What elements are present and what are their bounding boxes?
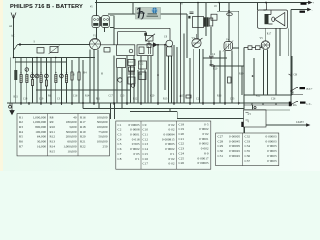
node aerial contact <box>19 44 21 46</box>
svg-text:C5: C5 <box>118 142 122 146</box>
svg-text:R14: R14 <box>50 144 56 148</box>
svg-text:0·0002: 0·0002 <box>130 147 140 151</box>
logo globe icon <box>152 7 158 13</box>
svg-text:R18: R18 <box>80 125 86 129</box>
logo text lines <box>148 13 158 14</box>
node top bus <box>228 10 230 12</box>
svg-text:0·00005: 0·00005 <box>198 161 209 165</box>
trimmer C16b <box>131 84 135 88</box>
svg-text:C26: C26 <box>179 161 185 165</box>
svg-text:0·0002: 0·0002 <box>165 147 175 151</box>
svg-text:C29: C29 <box>218 144 224 148</box>
svg-text:C18: C18 <box>179 122 185 126</box>
resistor R16 <box>228 77 232 83</box>
svg-text:RG: RG <box>293 104 297 107</box>
bus end blob <box>289 102 292 107</box>
svg-text:CH: CH <box>294 74 298 77</box>
svg-text:C24: C24 <box>179 151 185 155</box>
svg-text:C15: C15 <box>143 152 149 156</box>
output transformer T4 frame <box>258 10 288 28</box>
svg-text:0·1: 0·1 <box>170 152 175 156</box>
trimmer C1 <box>25 68 29 72</box>
box det C <box>147 44 151 48</box>
svg-text:R22: R22 <box>80 144 86 148</box>
resistor value table <box>17 114 110 156</box>
resistor R11 <box>139 72 146 80</box>
core T1 <box>99 17 102 26</box>
svg-text:R6: R6 <box>19 140 23 144</box>
svg-text:C30: C30 <box>218 149 224 153</box>
wire ground bus <box>7 102 291 104</box>
loudspeaker LS <box>275 13 285 26</box>
wire light terminal <box>306 124 310 126</box>
svg-text:C9: C9 <box>143 123 147 127</box>
trimmer arrows <box>25 68 63 78</box>
left cream edge strip <box>0 0 3 171</box>
svg-text:0·00003: 0·00003 <box>266 135 277 139</box>
svg-text:C13: C13 <box>120 95 125 98</box>
shade V1 <box>92 39 99 41</box>
capacitor C22 <box>190 12 194 14</box>
coil L1 aerial <box>14 70 17 80</box>
svg-text:0·00003: 0·00003 <box>266 139 277 143</box>
wire v1 anode <box>97 0 115 103</box>
svg-text:C37: C37 <box>245 159 251 163</box>
svg-text:C22: C22 <box>179 142 185 146</box>
svg-text:0·00045: 0·00045 <box>229 149 240 153</box>
svg-text:C20: C20 <box>150 95 155 98</box>
valve V2 body <box>167 47 172 56</box>
svg-text:C3: C3 <box>118 133 122 137</box>
svg-text:R8: R8 <box>50 115 54 119</box>
svg-text:R12: R12 <box>50 135 56 139</box>
coil L4 <box>31 80 33 86</box>
svg-text:L.T.−: L.T.− <box>307 103 313 106</box>
svg-text:0·00045: 0·00045 <box>229 154 240 158</box>
svg-text:0·02: 0·02 <box>168 128 174 132</box>
terminal HT+ label <box>301 3 307 5</box>
wire det line <box>101 44 167 46</box>
svg-text:C26: C26 <box>271 98 276 101</box>
wire v4 verticals <box>220 3 239 104</box>
wire ground stub <box>10 103 12 109</box>
resistor R10 <box>128 77 135 84</box>
trimmer C1b <box>31 74 35 78</box>
svg-text:C21: C21 <box>196 98 201 101</box>
coil L2 <box>20 75 22 83</box>
svg-text:250: 250 <box>103 144 108 148</box>
svg-text:C16: C16 <box>73 95 78 98</box>
core bars T5 <box>204 17 206 26</box>
svg-text:R21: R21 <box>14 96 19 99</box>
svg-text:0·00005: 0·00005 <box>229 135 240 139</box>
svg-text:R5: R5 <box>19 135 23 139</box>
node det junctions <box>157 44 159 46</box>
svg-text:C19: C19 <box>39 98 44 101</box>
node ground bus ticks <box>21 103 276 105</box>
terminal HT+ arrow <box>308 1 312 4</box>
battery tap circle <box>254 107 256 109</box>
svg-text:R16: R16 <box>217 95 222 98</box>
coil hatches <box>20 77 68 81</box>
svg-text:R14: R14 <box>85 95 90 98</box>
svg-text:0·0003: 0·0003 <box>267 149 277 153</box>
logo glyph h <box>137 8 145 19</box>
svg-text:C14: C14 <box>143 147 149 151</box>
electrodes V5 <box>262 42 270 48</box>
diode D1 <box>153 43 157 47</box>
wire c24 row <box>244 47 262 49</box>
LS coil <box>272 17 275 21</box>
battery cell marks <box>246 113 249 121</box>
contact S2 <box>291 90 292 91</box>
svg-text:8·0: 8·0 <box>204 151 209 155</box>
wire output box <box>244 56 292 95</box>
svg-text:C2: C2 <box>118 128 122 132</box>
capacitor C9 trimmer <box>227 13 233 16</box>
electrodes V4 <box>226 44 231 50</box>
svg-text:C28: C28 <box>218 139 224 143</box>
box L9 <box>117 59 126 68</box>
svg-text:C13: C13 <box>117 77 122 80</box>
contact S3 <box>291 104 292 105</box>
svg-text:R19: R19 <box>80 130 86 134</box>
wire heater pair <box>245 109 290 110</box>
wire output verticals <box>242 3 291 134</box>
electrodes V3 <box>193 34 200 43</box>
svg-text:0·0005: 0·0005 <box>165 142 175 146</box>
wire aux contact <box>291 94 303 96</box>
svg-text:C20: C20 <box>179 132 185 136</box>
arrow V4 <box>223 41 233 52</box>
svg-text:0·00017: 0·00017 <box>198 156 209 160</box>
svg-text:0·00005: 0·00005 <box>229 144 240 148</box>
svg-text:R2: R2 <box>19 120 23 124</box>
svg-text:H.T.+: H.T.+ <box>307 88 314 91</box>
capacitor C25 <box>256 46 261 50</box>
coil L8 <box>65 75 67 83</box>
arrow padder <box>146 34 155 45</box>
svg-text:R13: R13 <box>50 140 56 144</box>
wire wafer bar <box>15 61 67 63</box>
trimmer C13 <box>118 78 122 82</box>
valve V5 <box>261 41 270 50</box>
ground E <box>9 105 12 108</box>
ground arrow <box>10 109 14 115</box>
trimmer C3 <box>45 74 49 78</box>
svg-text:R11: R11 <box>50 130 56 134</box>
svg-text:C8: C8 <box>118 157 122 161</box>
IF can T5 <box>193 17 204 28</box>
battery lead blob <box>241 122 243 127</box>
valve V2 <box>166 40 173 47</box>
svg-text:0·0003: 0·0003 <box>267 159 277 163</box>
node bus junctions <box>13 57 15 59</box>
svg-text:C23: C23 <box>230 98 235 101</box>
svg-text:R20: R20 <box>213 68 218 71</box>
valve V3 <box>192 38 201 47</box>
switch S2 HT <box>291 88 298 92</box>
svg-text:AE: AE <box>11 35 15 38</box>
svg-text:C12: C12 <box>139 63 144 66</box>
svg-text:C19: C19 <box>179 127 185 131</box>
svg-text:C10: C10 <box>71 74 76 77</box>
svg-text:C35: C35 <box>245 149 251 153</box>
svg-text:R15: R15 <box>180 95 185 98</box>
IF can T6 <box>211 14 217 20</box>
wire det verticals <box>158 34 184 103</box>
svg-text:0·0002: 0·0002 <box>199 127 209 131</box>
svg-text:40: 40 <box>73 115 77 119</box>
svg-text:LIGHT: LIGHT <box>296 121 304 124</box>
wire if section verticals <box>117 56 151 103</box>
wire aerial bus <box>14 45 90 58</box>
svg-text:0·0001: 0·0001 <box>130 133 140 137</box>
resistor R7 <box>129 67 135 71</box>
svg-text:0·018: 0·018 <box>132 137 140 141</box>
padder blob <box>144 33 147 36</box>
svg-text:0·00045: 0·00045 <box>229 139 240 143</box>
trimmer C6 in T2 <box>129 49 133 53</box>
svg-text:C10: C10 <box>143 128 149 132</box>
svg-text:C27: C27 <box>218 135 224 139</box>
valve V1 <box>90 39 101 50</box>
wire mid verticals <box>133 3 206 104</box>
svg-text:0·00005: 0·00005 <box>129 123 140 127</box>
svg-text:0·0003: 0·0003 <box>267 154 277 158</box>
shade V3 <box>194 39 200 40</box>
svg-text:R3: R3 <box>19 125 23 129</box>
svg-text:0·02: 0·02 <box>168 123 174 127</box>
coil L5 <box>40 75 42 83</box>
capacitor value table 2 <box>216 133 279 166</box>
terminal LT label <box>300 11 306 13</box>
svg-text:C11: C11 <box>129 61 134 64</box>
svg-text:0·02: 0·02 <box>168 162 174 166</box>
resistor R9 <box>139 61 147 69</box>
node coil taps <box>20 72 67 73</box>
svg-text:0·0001: 0·0001 <box>199 137 209 141</box>
wire antenna lead <box>13 19 15 50</box>
svg-text:PHILIPS 716 B - BATTERY: PHILIPS 716 B - BATTERY <box>10 4 83 10</box>
svg-text:C7: C7 <box>118 152 122 156</box>
svg-text:C12: C12 <box>143 137 149 141</box>
svg-text:0·02: 0·02 <box>168 157 174 161</box>
logo box <box>136 7 161 19</box>
wire coupler verticals <box>72 50 98 109</box>
T3 coil <box>139 47 144 54</box>
wire battery drop <box>253 105 309 125</box>
svg-text:0·1: 0·1 <box>135 157 140 161</box>
svg-text:R13: R13 <box>163 98 168 101</box>
svg-text:C36: C36 <box>245 154 251 158</box>
svg-text:C13: C13 <box>143 142 149 146</box>
svg-text:R7: R7 <box>19 144 23 148</box>
svg-text:R21: R21 <box>80 140 86 144</box>
capacitor C15 <box>210 64 214 66</box>
svg-text:0·005: 0·005 <box>132 142 140 146</box>
wire det top <box>114 3 181 104</box>
wire LT feed <box>244 104 291 106</box>
aerial series component <box>50 47 58 53</box>
svg-text:C21: C21 <box>179 137 185 141</box>
IF transformer T2 <box>117 45 135 56</box>
wire LS link <box>267 3 273 25</box>
electrodes T1 <box>94 19 109 21</box>
T4 windings <box>265 14 269 24</box>
svg-text:0·0003: 0·0003 <box>267 144 277 148</box>
svg-text:0·05: 0·05 <box>133 152 139 156</box>
battery B1 box <box>244 110 267 127</box>
svg-text:0·002: 0·002 <box>201 147 209 151</box>
svg-text:R11: R11 <box>96 98 101 101</box>
T3 core <box>149 47 151 55</box>
svg-text:R4: R4 <box>19 130 23 134</box>
svg-text:0·0002: 0·0002 <box>199 142 209 146</box>
screen H box <box>104 48 110 53</box>
wire HT+ bus top <box>95 2 308 4</box>
svg-text:0·02: 0·02 <box>202 132 208 136</box>
wire avc line <box>36 89 130 91</box>
svg-text:C23: C23 <box>179 147 185 151</box>
svg-text:R17: R17 <box>80 120 86 124</box>
arrow V3 <box>193 38 203 47</box>
wire tuning bus <box>14 57 96 59</box>
resistor R8 <box>128 60 135 66</box>
wire tuning bank verticals <box>10 58 66 104</box>
svg-text:C33: C33 <box>245 139 251 143</box>
svg-text:R16: R16 <box>80 115 86 119</box>
capacitor C4 <box>209 56 214 58</box>
svg-text:C25: C25 <box>179 156 185 160</box>
svg-text:R17: R17 <box>267 33 272 36</box>
antenna A1 <box>11 13 16 20</box>
wire v4 box top <box>217 11 239 48</box>
resistor R1 <box>71 72 73 80</box>
svg-text:0·000815: 0·000815 <box>162 137 175 141</box>
wire sub bus drops <box>99 103 245 133</box>
choke CH <box>289 73 292 78</box>
svg-text:C18: C18 <box>23 98 28 101</box>
terminal LT- label <box>300 102 306 104</box>
svg-text:0·5: 0·5 <box>204 122 209 126</box>
svg-text:R10: R10 <box>50 125 56 129</box>
oscillator coil T1 <box>92 16 100 28</box>
coil L7 <box>55 75 57 83</box>
cathode marks T1 <box>93 23 98 26</box>
svg-text:R19: R19 <box>239 73 244 76</box>
arrow coupler <box>49 46 60 55</box>
valve V4 <box>224 42 233 51</box>
svg-text:0·0008: 0·0008 <box>130 128 140 132</box>
svg-text:R20: R20 <box>80 135 86 139</box>
switch S1 aerial <box>14 45 18 51</box>
terminal LT arrow <box>307 8 311 11</box>
svg-text:C17: C17 <box>143 162 149 166</box>
svg-text:H: H <box>101 73 103 76</box>
capacitor value table <box>116 121 211 169</box>
wire grid bus segment <box>108 13 187 15</box>
svg-text:C34: C34 <box>245 144 251 148</box>
IF transformer T3 <box>137 45 153 56</box>
wire c4 branch <box>203 27 244 103</box>
svg-text:C31: C31 <box>218 154 224 158</box>
wire LT bus to terminal <box>291 9 307 11</box>
svg-text:R15: R15 <box>50 149 56 153</box>
svg-text:C32: C32 <box>245 135 251 139</box>
coil L3 <box>26 75 28 83</box>
svg-text:C16: C16 <box>143 157 149 161</box>
wire c9 link <box>219 3 221 12</box>
svg-text:C1: C1 <box>118 123 122 127</box>
svg-text:R1: R1 <box>19 115 23 119</box>
resistor R18 <box>186 95 191 98</box>
coil former T5 <box>209 18 213 26</box>
coil L6 <box>45 80 47 86</box>
oscillator coil T1 secondary <box>102 16 110 28</box>
switch S3 LT <box>291 102 298 105</box>
capacitor C11 <box>128 72 135 74</box>
svg-text:0·00084: 0·00084 <box>164 133 175 137</box>
capacitor C6 <box>37 48 44 54</box>
anode blob <box>188 16 190 19</box>
wire sub bus <box>83 108 244 110</box>
trimmer C5 <box>60 74 64 78</box>
logo plate <box>136 8 161 20</box>
grid V1 <box>90 41 100 48</box>
svg-text:C6: C6 <box>118 147 122 151</box>
svg-text:R12: R12 <box>133 98 138 101</box>
padder C14 <box>146 35 153 41</box>
svg-text:R22: R22 <box>256 95 261 98</box>
paper background <box>0 0 320 171</box>
terminal GB label <box>300 87 306 89</box>
svg-text:C4: C4 <box>118 137 122 141</box>
resistor R2 <box>78 72 80 80</box>
svg-text:C17: C17 <box>109 95 114 98</box>
trimmer C2 <box>35 74 39 78</box>
svg-text:R9: R9 <box>50 120 54 124</box>
capacitor C24 <box>248 46 252 50</box>
shade V5 <box>263 41 269 42</box>
svg-text:C11: C11 <box>143 133 149 137</box>
